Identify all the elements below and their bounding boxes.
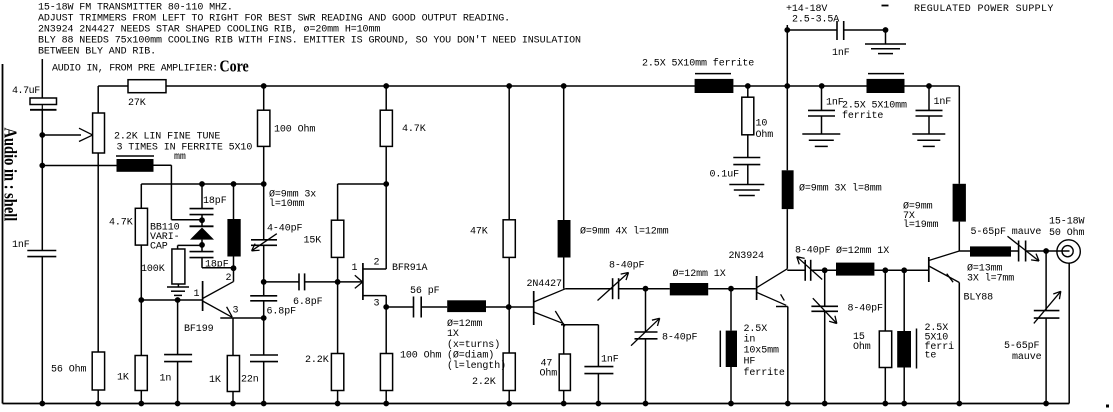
wire trimmer6 to bus xyxy=(1045,318,1047,403)
trimmer 8-40pF shunt 4 xyxy=(811,305,838,307)
svg-text:1: 1 xyxy=(352,263,358,274)
node bus 1nF-2 xyxy=(819,83,825,89)
wire C 0.1uF to ground xyxy=(747,165,749,185)
transistor Q1 BF199 bar xyxy=(202,281,204,311)
wire wiper horizontal xyxy=(42,134,81,136)
inductor L 12mm 1X interstage xyxy=(447,300,486,312)
inductor L out ferrite 2.5X 5X10 xyxy=(897,331,911,368)
BF199 emitter xyxy=(203,301,233,317)
svg-text:1X: 1X xyxy=(447,329,459,340)
svg-text:5-65pF mauve: 5-65pF mauve xyxy=(971,227,1042,238)
svg-text:3: 3 xyxy=(233,306,239,317)
wire supply drop xyxy=(786,25,788,86)
wire node to out ferrite xyxy=(903,270,905,331)
wire collector to trimmer3 xyxy=(787,269,805,271)
BLY88 emitter tick xyxy=(947,274,953,283)
wire BLY emitter to bus xyxy=(958,283,960,404)
inductor L 9mm 4X xyxy=(558,220,571,258)
wire shell bus left xyxy=(2,64,4,404)
wire trimmer1 to node xyxy=(619,288,670,290)
node bus HF-ferrite xyxy=(728,401,734,407)
node trimmer2 tap xyxy=(643,286,649,292)
wire node to HF ferrite xyxy=(730,289,732,331)
svg-text:100 Ohm: 100 Ohm xyxy=(274,124,315,136)
node varicap cathode xyxy=(199,217,205,223)
node bus 2N3924-e xyxy=(785,401,791,407)
wire emitter rail BF199 xyxy=(220,317,265,319)
svg-text:2.5X: 2.5X xyxy=(744,324,768,335)
wire connector shield down xyxy=(1068,263,1070,403)
svg-text:Core: Core xyxy=(220,57,249,75)
wire out ferrite to bus xyxy=(903,368,905,404)
node bus 47Ohm xyxy=(561,401,567,407)
svg-text:2: 2 xyxy=(374,258,380,269)
node bus 56Ohm xyxy=(95,401,101,407)
wire C 1nF-2 to ground xyxy=(821,116,823,134)
svg-text:0.1uF: 0.1uF xyxy=(710,170,740,181)
wire ground bus xyxy=(3,403,1070,405)
wire bus after choke1 xyxy=(733,85,866,87)
wire collector out rail xyxy=(959,250,970,252)
wire coil to 2N3924 base xyxy=(708,288,756,290)
resistor 47 Ohm xyxy=(559,354,570,391)
svg-text:2.2K: 2.2K xyxy=(472,377,496,388)
svg-text:2: 2 xyxy=(226,273,232,284)
choke L 2.5X 5X10mm ferrite xyxy=(695,79,734,93)
wire node to 15 Ohm xyxy=(884,270,886,331)
resistor 1K first xyxy=(135,356,147,391)
wire bus to C 1nF-2 xyxy=(821,86,823,110)
wire 1K1 to bus xyxy=(140,391,142,404)
svg-text:5-65pF: 5-65pF xyxy=(1004,341,1040,352)
wire node to trimmer6 xyxy=(1045,251,1047,311)
wire 4-40pF to collector rail xyxy=(263,245,265,295)
wire emitter to 56pF xyxy=(386,306,413,308)
svg-text:3: 3 xyxy=(374,299,380,310)
wire 2.2K2 to bus xyxy=(508,391,510,404)
wire varicap anode down xyxy=(201,240,203,252)
inductor out ferrite core line xyxy=(916,329,918,369)
svg-text:ferrite: ferrite xyxy=(744,367,785,379)
wire trimmer5 to out node xyxy=(1026,250,1057,252)
svg-text:56 pF: 56 pF xyxy=(410,286,440,297)
wire 56 Ohm to bus xyxy=(97,390,99,404)
wire 3X coil to collector xyxy=(786,209,788,269)
node bus 10 Ohm xyxy=(745,83,751,89)
node bus supply entry xyxy=(784,83,790,89)
svg-text:8-40pF: 8-40pF xyxy=(795,246,831,257)
inductor L HF ferrite 2.5X xyxy=(726,331,737,367)
svg-text:1n: 1n xyxy=(160,374,172,385)
wire node to trimmer2 xyxy=(645,289,647,332)
wire base rail BF199 xyxy=(141,299,202,301)
wire 18pF bottom down xyxy=(201,258,203,268)
svg-text:6.8pF: 6.8pF xyxy=(293,297,323,308)
wire corner down to ground xyxy=(885,30,887,44)
svg-text:l=19mm: l=19mm xyxy=(903,219,939,231)
svg-text:Ohm: Ohm xyxy=(756,129,774,141)
svg-text:2.5X 5X10mm: 2.5X 5X10mm xyxy=(842,101,907,112)
wire trimmer4 to bus xyxy=(824,311,826,403)
2N4427 emitter xyxy=(534,312,564,324)
wire bus to 4X coil xyxy=(563,86,565,220)
wire rail corner down to 4.7K xyxy=(140,184,142,208)
node bus 2.2K-2 xyxy=(506,401,512,407)
svg-text:1nF: 1nF xyxy=(934,97,952,108)
trimmer 8-40pF series 1 xyxy=(612,278,614,299)
svg-text:1: 1 xyxy=(194,289,200,300)
wire 22n to bus xyxy=(263,362,265,404)
node bus 1nF-3 xyxy=(926,83,932,89)
wire collector to trimmer1 xyxy=(566,288,613,290)
transistor Q5 BLY88 bar xyxy=(928,257,930,282)
wire anode to 100K xyxy=(178,244,202,246)
wire node to trimmer4 xyxy=(824,270,826,306)
resistor 100 Ohm emitter xyxy=(380,354,392,391)
wire trimmer2 to bus xyxy=(645,339,647,404)
svg-text:2N4427: 2N4427 xyxy=(527,279,563,290)
svg-text:HF: HF xyxy=(744,357,756,368)
node 15 Ohm tap xyxy=(882,267,888,273)
svg-text:REGULATED POWER SUPPLY: REGULATED POWER SUPPLY xyxy=(914,4,1054,15)
wire 1nF emitter to bus xyxy=(597,374,599,404)
svg-text:27K: 27K xyxy=(128,98,146,109)
wire emitter down xyxy=(385,296,387,354)
svg-text:8-40pF: 8-40pF xyxy=(662,333,698,344)
svg-text:2N3924 2N4427 NEEDS STAR SHAPE: 2N3924 2N4427 NEEDS STAR SHAPED COOLING … xyxy=(38,25,380,36)
transistor Q3 2N4427 bar xyxy=(533,291,535,325)
svg-text:in: in xyxy=(744,334,756,346)
choke L2 2.5X 5X10mm ferrite core line xyxy=(868,73,904,75)
svg-text:AUDIO IN, FROM PRE AMPLIFIER:: AUDIO IN, FROM PRE AMPLIFIER: xyxy=(52,64,218,75)
wire 15K to collector rail xyxy=(337,257,339,282)
svg-text:BETWEEN BLY AND RIB.: BETWEEN BLY AND RIB. xyxy=(38,47,156,58)
trimmer 4-40pF xyxy=(251,239,277,241)
node bus out-ferrite xyxy=(901,401,907,407)
svg-text:4.7uF: 4.7uF xyxy=(12,86,40,97)
node bus 1n xyxy=(175,401,181,407)
node bus 4.7K2 xyxy=(383,83,389,89)
BFR91A emitter lead xyxy=(363,295,386,297)
svg-text:1K: 1K xyxy=(117,373,129,384)
node trimmer4 tap xyxy=(822,267,828,273)
wire supply to C-1nF xyxy=(787,29,837,31)
capacitor 56pF xyxy=(413,297,415,318)
choke L2 2.5X 5X10mm ferrite xyxy=(867,79,905,93)
node coil-18pF join xyxy=(231,265,237,271)
svg-text:(l=length): (l=length) xyxy=(447,360,506,372)
inductor HF ferrite core line xyxy=(719,331,721,367)
svg-text:6.8pF: 6.8pF xyxy=(267,307,297,318)
svg-text:18pF: 18pF xyxy=(203,196,227,207)
node HF ferrite tap xyxy=(728,286,734,292)
wire varicap feed down xyxy=(170,165,172,220)
ground supply xyxy=(865,43,906,45)
wire into connector xyxy=(1057,250,1070,252)
node bus 22n xyxy=(261,401,267,407)
svg-text:BFR91A: BFR91A xyxy=(392,263,428,274)
capacitor 6.8pF coupling xyxy=(298,273,300,290)
diode BB110 varicap xyxy=(190,225,214,227)
svg-text:2.5X 5X10mm ferrite: 2.5X 5X10mm ferrite xyxy=(642,58,754,70)
wire bus to 47K xyxy=(508,86,510,220)
wire emitter to 1K2 xyxy=(232,318,234,356)
inductor L 9mm 7X l=19mm xyxy=(953,184,966,222)
wire base rail to 1n xyxy=(177,300,179,355)
inductor L 12mm 1X driver xyxy=(670,283,708,295)
svg-text:1nF: 1nF xyxy=(12,240,30,251)
capacitor 1nF decoupling 3 xyxy=(916,109,943,111)
supply minus terminal xyxy=(882,5,889,7)
node 15K bottom xyxy=(335,279,341,285)
wire bus right segment xyxy=(905,85,960,87)
capacitor 18pF bottom xyxy=(190,251,214,253)
node bus 1K-1 xyxy=(138,401,144,407)
wire rail2 segment xyxy=(338,183,387,185)
capacitor 1nF decoupling 2 xyxy=(808,109,835,111)
svg-text:l=10mm: l=10mm xyxy=(269,198,305,210)
2N4427 emitter tick xyxy=(555,311,565,326)
svg-text:(x=turns): (x=turns) xyxy=(447,339,500,351)
wire emitter rail 2N4427 xyxy=(561,324,598,326)
trimmer 5-65pF shunt 6 xyxy=(1034,310,1060,312)
BFR91A base arrow xyxy=(355,275,363,282)
resistor 100 Ohm feed xyxy=(258,110,270,146)
wire C-1nF to ground corner xyxy=(844,29,886,31)
2N3924 emitter xyxy=(757,292,787,305)
wire HF ferrite to bus xyxy=(730,367,732,404)
svg-text:8-40pF: 8-40pF xyxy=(609,261,645,272)
node emitter 56pF xyxy=(383,304,389,310)
transistor Q4 2N3924 bar xyxy=(756,276,758,300)
period mark xyxy=(1106,405,1109,408)
wire 4X coil to collector xyxy=(563,258,565,289)
svg-text:Ø=12mm 1X: Ø=12mm 1X xyxy=(673,268,726,280)
wire 1K2 to bus xyxy=(232,392,234,404)
wire emitter rail to 1nF xyxy=(597,325,599,367)
node bus 4X coil xyxy=(561,83,567,89)
svg-text:15-18W: 15-18W xyxy=(1049,217,1085,228)
ground 0.1uF xyxy=(729,184,764,186)
node output xyxy=(1043,248,1049,254)
wire 1nF input to bus xyxy=(41,257,43,404)
svg-text:15-18W FM TRANSMITTER 80-110 M: 15-18W FM TRANSMITTER 80-110 MHZ. xyxy=(38,3,233,14)
wire bus mid segment xyxy=(166,85,695,87)
svg-text:3X l=7mm: 3X l=7mm xyxy=(967,273,1014,285)
wire bus corner to 7X coil xyxy=(958,86,960,184)
node bus 1nF-e xyxy=(596,401,602,407)
svg-text:(Ø=diam): (Ø=diam) xyxy=(447,350,494,362)
svg-text:4.7K: 4.7K xyxy=(402,124,426,135)
svg-text:+14-18V: +14-18V xyxy=(786,4,827,15)
trimmer 8-40pF series 3 xyxy=(804,260,806,281)
inductor L 12mm 1X output-drive xyxy=(836,263,874,276)
svg-text:CAP: CAP xyxy=(150,242,168,253)
wire emitter rail to 22n xyxy=(263,318,265,355)
capacitor 18pF top xyxy=(190,208,214,210)
svg-text:1nF: 1nF xyxy=(601,355,619,366)
svg-text:ferrite: ferrite xyxy=(842,110,883,122)
svg-text:1K: 1K xyxy=(209,375,221,386)
svg-text:56 Ohm: 56 Ohm xyxy=(51,364,87,376)
wire 4.7K to base rail xyxy=(140,245,142,300)
resistor 10 Ohm xyxy=(742,97,754,135)
node rail trimmer xyxy=(261,181,267,187)
wire 7X coil to collector xyxy=(958,222,960,251)
node bus 15Ohm xyxy=(882,401,888,407)
svg-text:2.2K: 2.2K xyxy=(305,355,329,366)
svg-text:10: 10 xyxy=(756,119,768,130)
node rail 18pF xyxy=(199,181,205,187)
capacitor 4.7uF electrolytic xyxy=(30,98,57,105)
wire 4.7uF down xyxy=(41,105,43,110)
capacitor 0.1uF xyxy=(733,157,760,159)
ground 1nF-3 xyxy=(912,133,945,135)
node bus 2.2K-1 xyxy=(335,401,341,407)
inductor L 13mm 3X l=7mm xyxy=(970,246,1011,256)
wire 100K to ground xyxy=(177,284,179,287)
svg-text:Ohm: Ohm xyxy=(853,341,871,353)
ground 100K xyxy=(167,286,189,288)
svg-text:15K: 15K xyxy=(304,236,322,247)
wire trimmer3 to node xyxy=(811,269,836,271)
wire pot bottom to 56 Ohm xyxy=(97,153,99,352)
wire 15 Ohm to bus xyxy=(884,368,886,404)
node bus trim6 xyxy=(1043,401,1049,407)
wire R10 to C 0.1uF xyxy=(747,135,749,158)
wire base rail to 1K xyxy=(140,300,142,356)
choke L 2.5X 5X10mm ferrite core line xyxy=(695,73,731,75)
2N3924 emitter tick xyxy=(781,294,785,300)
node bus trim4 xyxy=(822,401,828,407)
svg-text:47K: 47K xyxy=(470,227,488,238)
node emitter rail 22n xyxy=(261,315,267,321)
wire rail to 18pF top xyxy=(201,184,203,209)
svg-text:2.5-3.5A: 2.5-3.5A xyxy=(792,15,839,26)
pot wiper arrow xyxy=(79,128,92,135)
BFR91A collector lead xyxy=(363,268,386,270)
svg-text:22n: 22n xyxy=(241,375,259,386)
svg-text:100K: 100K xyxy=(141,264,165,275)
node base rail 1n xyxy=(175,297,181,303)
wire base node to 2.2K2 xyxy=(508,307,510,353)
svg-text:50 Ohm: 50 Ohm xyxy=(1049,227,1085,239)
2N4427 collector xyxy=(534,289,566,302)
node wiper junction xyxy=(39,132,45,138)
ground 1nF-2 xyxy=(802,133,840,135)
wire 1n to bus xyxy=(177,362,179,404)
node 2N4427 base xyxy=(506,304,512,310)
wire 100 Ohm to bus xyxy=(385,391,387,404)
resistor 1K second xyxy=(227,356,239,392)
svg-text:2.2K LIN FINE TUNE: 2.2K LIN FINE TUNE xyxy=(114,132,220,143)
svg-text:te: te xyxy=(925,351,937,362)
wire bus to 100 Ohm xyxy=(263,86,265,110)
wire 2N4427 emitter down xyxy=(563,324,565,354)
BF199 emitter tick xyxy=(227,307,233,317)
wire audio-in top xyxy=(41,59,43,98)
capacitor 6.8pF emitter xyxy=(250,295,277,297)
wire bus corner to pot xyxy=(97,86,99,113)
wire ferrite left xyxy=(42,165,116,167)
svg-text:ADJUST TRIMMERS FROM LEFT TO R: ADJUST TRIMMERS FROM LEFT TO RIGHT FOR B… xyxy=(38,14,510,25)
node rail2 4.7K2 xyxy=(383,181,389,187)
resistor 56 Ohm xyxy=(92,352,104,390)
resistor 2.2K second xyxy=(503,353,515,391)
wire bus to C 1nF-3 xyxy=(928,86,930,110)
svg-text:Ø=9mm 4X l=12mm: Ø=9mm 4X l=12mm xyxy=(580,226,669,238)
wire 18pF to varicap xyxy=(201,215,203,227)
wire bus to R 10 Ohm xyxy=(747,86,749,97)
potentiometer 2.2K LIN xyxy=(93,113,105,153)
node collector junction xyxy=(261,279,267,285)
node bus 1K-2 xyxy=(230,401,236,407)
node bus 1nF-in xyxy=(39,401,45,407)
capacitor 22n xyxy=(250,354,278,356)
capacitor 1n xyxy=(164,354,192,356)
trimmer 8-40pF shunt 2 xyxy=(635,331,658,333)
wire rail to osc coil xyxy=(233,184,235,219)
wire coil to base node xyxy=(486,306,534,308)
wire rail2 down to 15K xyxy=(337,184,339,220)
capacitor 1nF supply input xyxy=(836,21,838,40)
resistor 47K xyxy=(503,220,515,258)
wire supply choke drop xyxy=(786,86,788,170)
node rail coil xyxy=(231,181,237,187)
capacitor 1nF input xyxy=(27,250,56,252)
svg-text:1nF: 1nF xyxy=(832,48,850,59)
wire 56pF to coil xyxy=(421,306,447,308)
wire ferrite right xyxy=(154,164,172,166)
node out-ferrite tap xyxy=(901,267,907,273)
node bus 100Ohm xyxy=(383,401,389,407)
wire bus left segment xyxy=(98,85,128,87)
wire 18pF bottom to coil node xyxy=(202,267,234,269)
svg-text:4.7K: 4.7K xyxy=(109,218,133,229)
svg-text:4-40pF: 4-40pF xyxy=(267,224,303,235)
svg-text:mauve: mauve xyxy=(1012,352,1042,363)
wire 47 Ohm to bus xyxy=(563,391,565,404)
svg-text:Ohm: Ohm xyxy=(540,368,558,380)
node ferrite junction xyxy=(39,163,45,169)
inductor ferrite 3-times core line xyxy=(116,155,154,157)
svg-text:Ø=9mm 3X l=8mm: Ø=9mm 3X l=8mm xyxy=(799,183,882,195)
capacitor 1nF emitter xyxy=(584,366,613,368)
inductor L 9mm 3X l=8mm xyxy=(782,170,794,209)
inductor L ferrite 3 times 5X10 xyxy=(117,159,154,172)
node varicap anode xyxy=(199,242,205,248)
wire varicap feed to cathode node xyxy=(171,219,202,221)
wire C 1nF-3 to ground xyxy=(928,116,930,134)
trimmer 5-65pF series 5 xyxy=(1018,241,1020,262)
node bus BLY-e xyxy=(956,401,962,407)
node minus corner xyxy=(883,27,889,33)
wire 6.8pF to 15K node xyxy=(305,281,362,283)
wire 100 Ohm to rail xyxy=(263,146,265,239)
wire coil to BLY base xyxy=(874,269,928,271)
svg-text:mm: mm xyxy=(174,152,186,163)
resistor 15 Ohm xyxy=(879,331,891,368)
resistor 27K xyxy=(128,80,166,93)
svg-text:18pF: 18pF xyxy=(205,260,229,271)
wire collector up to 4.7K xyxy=(385,146,387,269)
transistor Q2 BFR91A bar xyxy=(362,263,364,300)
svg-text:Ø=12mm 1X: Ø=12mm 1X xyxy=(836,245,889,257)
svg-text:BLY 88 NEEDS 75x100mm COOLING: BLY 88 NEEDS 75x100mm COOLING RIB WITH F… xyxy=(38,35,581,47)
svg-text:10x5mm: 10x5mm xyxy=(744,346,780,357)
resistor 2.2K first xyxy=(331,354,343,391)
wire 2N3924 emitter overhang xyxy=(776,306,788,308)
